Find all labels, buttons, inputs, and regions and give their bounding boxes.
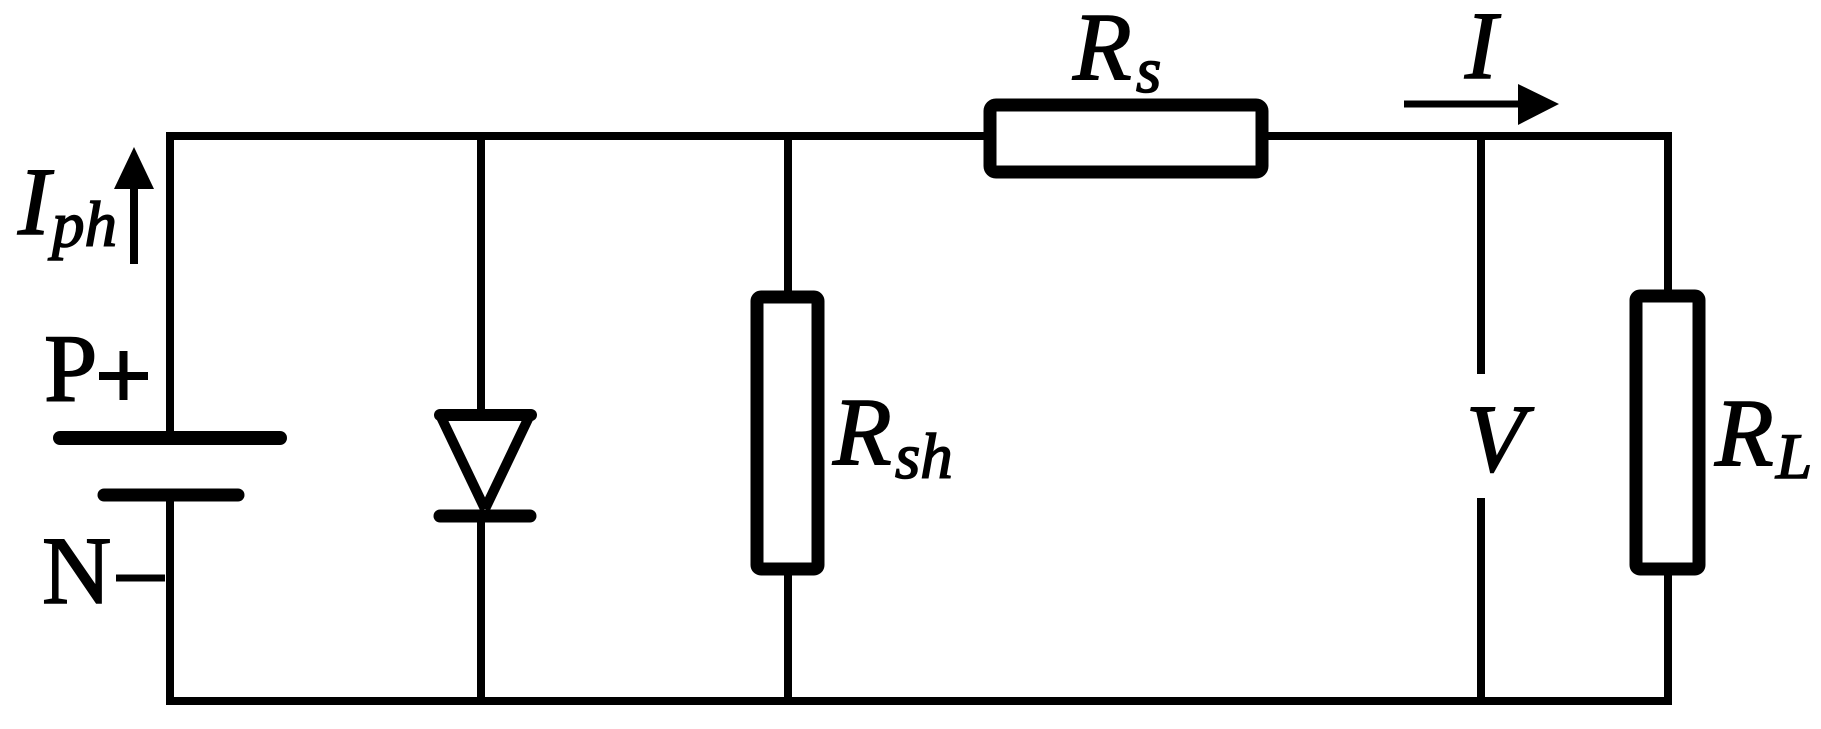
svg-text:s: s bbox=[1136, 35, 1161, 107]
svg-text:R: R bbox=[832, 378, 892, 485]
diode D1 triangle right side bbox=[485, 418, 529, 509]
battery negative plate (N-) bbox=[104, 489, 238, 502]
resistor Rs body (series resistance, in top wire) bbox=[990, 105, 1262, 172]
svg-text:sh: sh bbox=[895, 421, 953, 493]
svg-text:P: P bbox=[44, 315, 97, 422]
wire shunt resistor branch bbox=[784, 136, 792, 701]
svg-text:L: L bbox=[1775, 421, 1812, 493]
svg-text:ph: ph bbox=[48, 189, 117, 261]
wire bottom (return/ground rail) bbox=[166, 697, 1672, 705]
wire top (node between battery, diode, Rsh, Rs) bbox=[166, 132, 1672, 140]
wire right (load branch vertical) bbox=[1664, 132, 1672, 705]
svg-text:I: I bbox=[1464, 0, 1501, 99]
wire left upper (battery positive lead) bbox=[166, 132, 174, 433]
arrow Iph (photocurrent direction) bbox=[130, 186, 138, 264]
voltage probe line upper (V terminal from top node) bbox=[1477, 136, 1485, 374]
diode D1 cathode bar bbox=[440, 510, 530, 523]
resistor Rsh body bbox=[757, 297, 818, 569]
battery positive plate (P+) bbox=[60, 431, 280, 445]
svg-text:R: R bbox=[1714, 379, 1774, 486]
svg-text:N: N bbox=[42, 517, 111, 624]
wire left lower (battery negative lead) bbox=[166, 500, 174, 705]
diode D1 triangle left side bbox=[442, 418, 486, 509]
wire diode branch lower bbox=[477, 516, 485, 701]
diode D1 anode bar bbox=[440, 409, 531, 421]
svg-text:R: R bbox=[1072, 0, 1132, 100]
voltage probe line lower (V terminal to bottom node) bbox=[1477, 498, 1485, 701]
svg-text:V: V bbox=[1466, 385, 1534, 492]
svg-text:I: I bbox=[17, 148, 54, 255]
wire diode branch upper bbox=[477, 136, 485, 414]
resistor RL body (load) bbox=[1636, 296, 1699, 569]
arrow I (load current direction) bbox=[1404, 101, 1520, 108]
